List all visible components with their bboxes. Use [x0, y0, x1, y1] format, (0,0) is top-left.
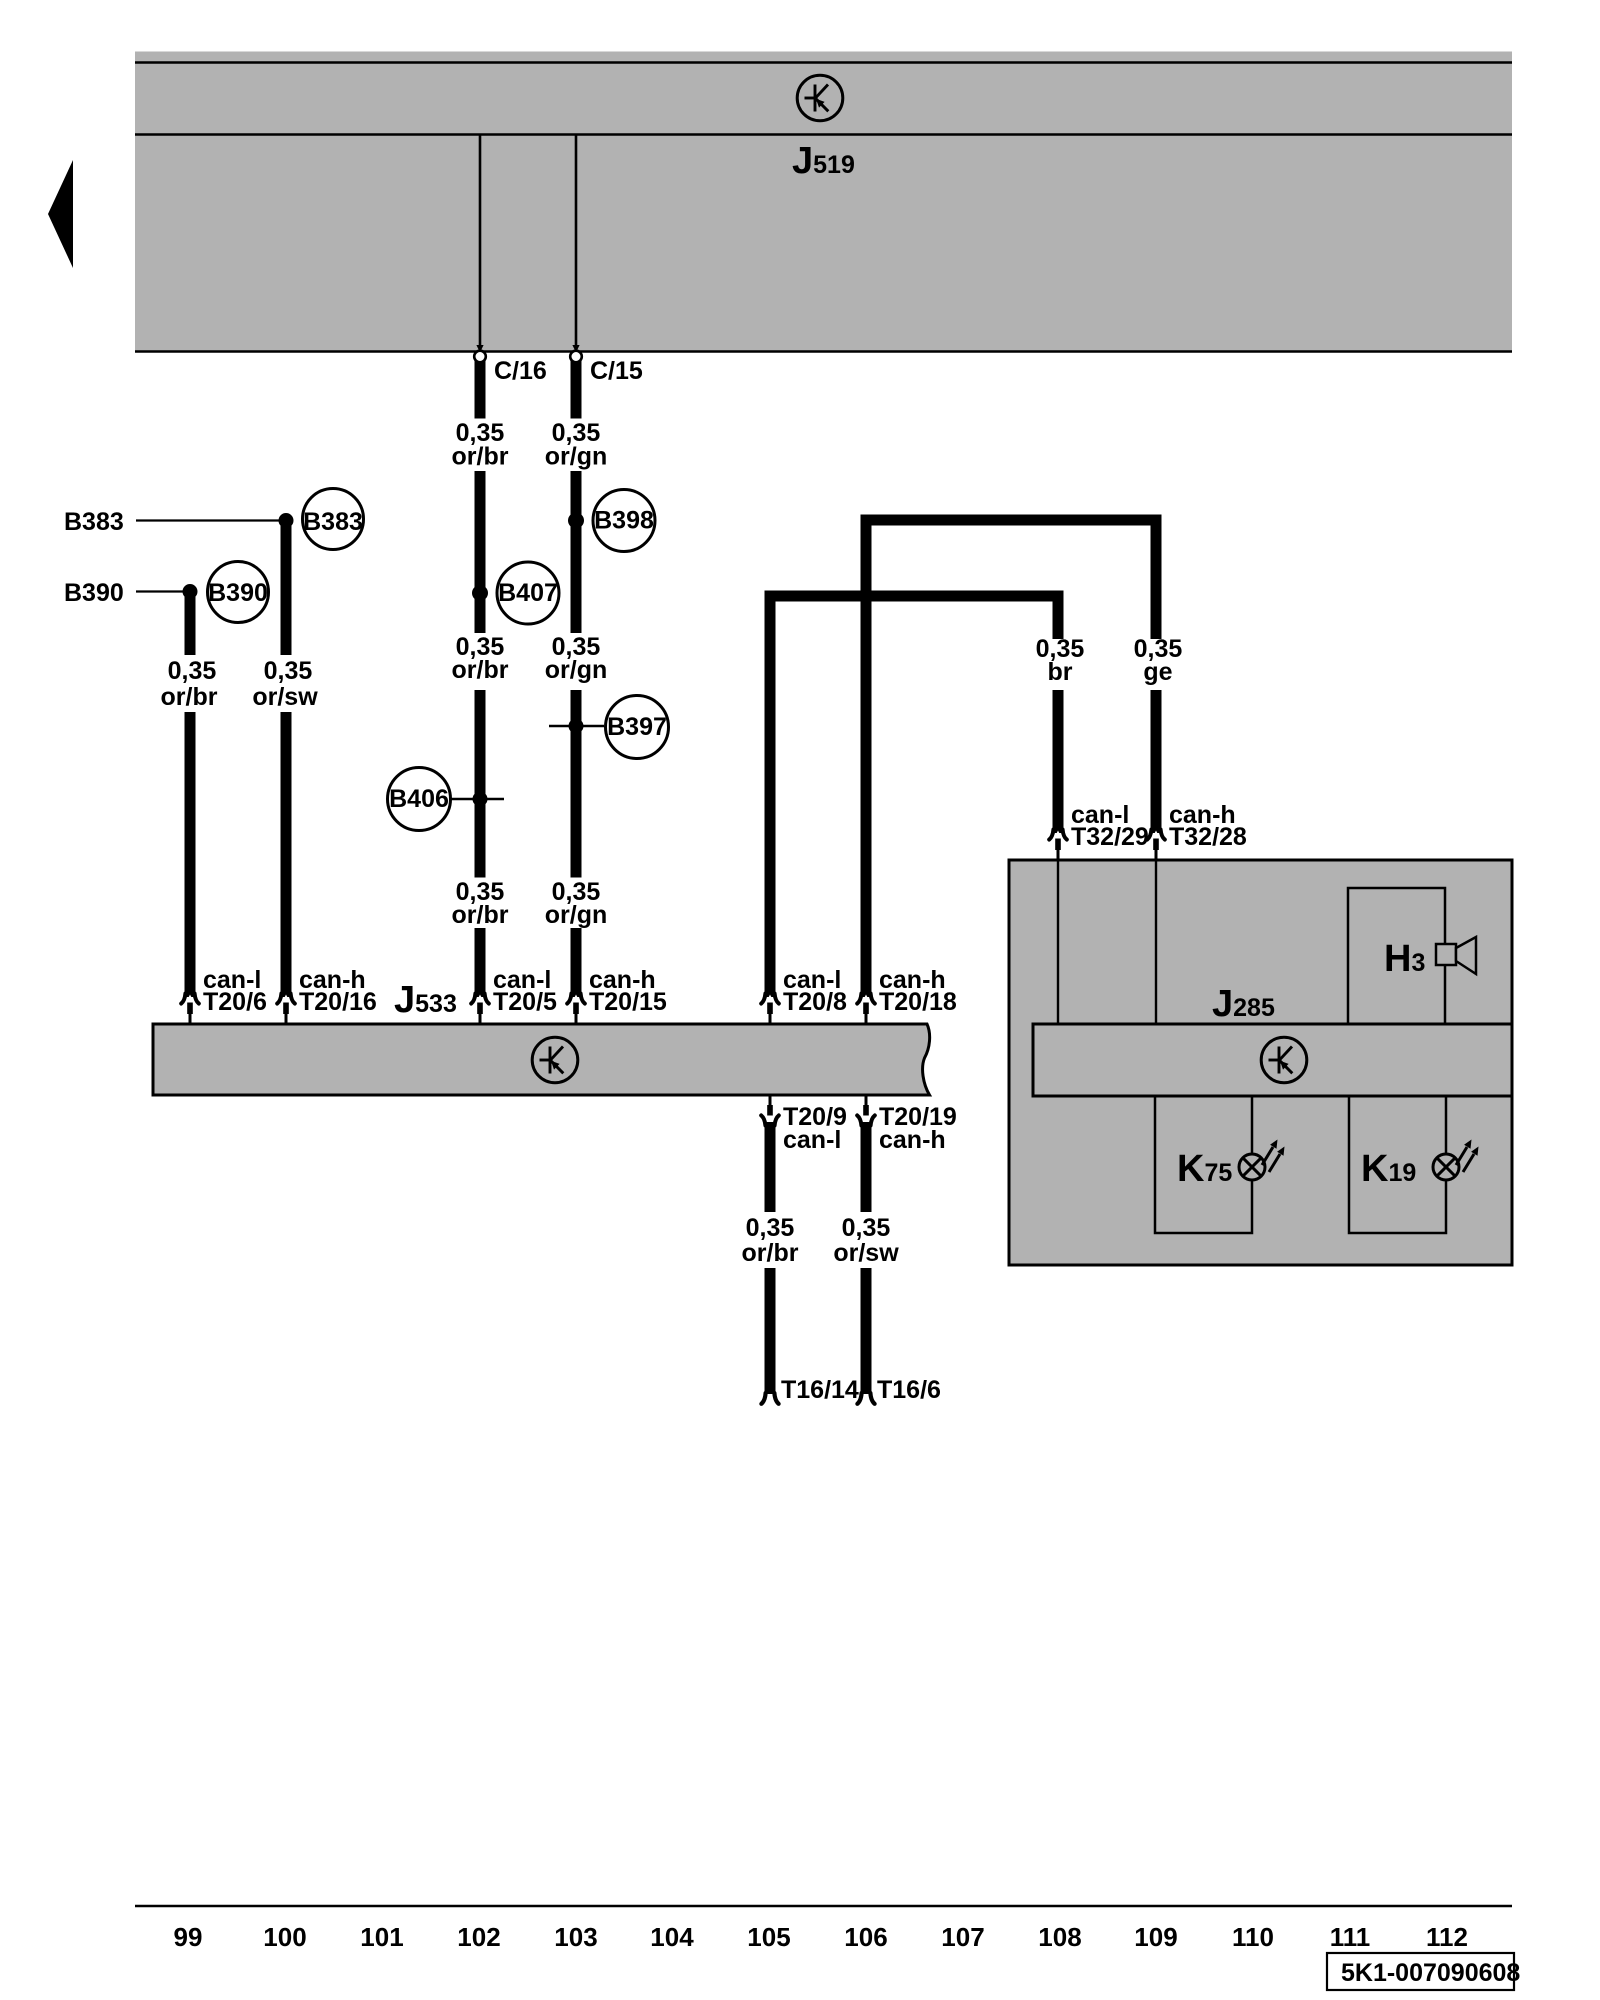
terminal T20/15: [567, 994, 585, 1025]
svg-text:102: 102: [457, 1922, 500, 1952]
can-h horizontal wire (106 to 109): [861, 515, 1162, 526]
wire end T16/14: [761, 1393, 778, 1404]
wire 100 segment 2: [281, 712, 292, 997]
svg-text:or/gn: or/gn: [545, 656, 608, 684]
svg-text:0,35: 0,35: [264, 657, 313, 685]
svg-text:or/sw: or/sw: [252, 683, 318, 711]
splice circle B398: [593, 490, 655, 552]
internal bus bar of J285: [1033, 1024, 1512, 1096]
svg-text:0,35: 0,35: [746, 1214, 795, 1242]
svg-text:B397: B397: [607, 713, 667, 741]
internal wire to C/15: [575, 135, 578, 346]
control unit J285 box (instrument cluster): [1009, 860, 1512, 1265]
connector ring C/15: [570, 351, 582, 363]
ECU J519 box (onboard supply control unit): [135, 52, 1512, 353]
lamp K75: [1239, 1140, 1285, 1181]
svg-text:or/br: or/br: [452, 656, 509, 684]
svg-text:T20/5: T20/5: [493, 988, 557, 1016]
wire 103 segment 4: [571, 928, 582, 997]
wire 109 ge segment 1: [1151, 515, 1162, 639]
internal wire to C/16: [479, 135, 482, 346]
svg-text:0,35: 0,35: [168, 657, 217, 685]
wire 105 can-l vertical: [765, 591, 776, 997]
wire 106 can-h vertical: [861, 515, 872, 997]
K symbol in J519: [797, 75, 843, 121]
splice dot B390: [183, 584, 198, 599]
speaker H3 symbol: [1436, 944, 1456, 965]
svg-text:C/15: C/15: [590, 357, 643, 385]
svg-text:103: 103: [554, 1922, 597, 1952]
svg-text:C/16: C/16: [494, 357, 547, 385]
wire end T16/6: [857, 1393, 874, 1404]
terminal T20/8: [761, 994, 779, 1025]
terminal T20/19: [857, 1095, 875, 1126]
svg-text:107: 107: [941, 1922, 984, 1952]
wire 103 or/gn segment 1: [571, 361, 582, 419]
svg-text:B390: B390: [64, 579, 124, 607]
terminal T20/5: [471, 994, 489, 1025]
wire 105 lower segment 1: [765, 1122, 776, 1212]
wire 102 segment 4: [475, 928, 486, 997]
svg-text:or/sw: or/sw: [833, 1239, 899, 1267]
svg-text:can-l: can-l: [783, 1126, 841, 1154]
wire 103 segment 2: [571, 471, 582, 633]
svg-text:106: 106: [844, 1922, 887, 1952]
connector ring C/16: [474, 351, 486, 363]
svg-text:br: br: [1048, 658, 1073, 686]
gateway J533 bus bar: [153, 1024, 930, 1095]
svg-text:T20/16: T20/16: [299, 988, 377, 1016]
splice circle B397: [606, 696, 669, 759]
K75 sub-box: [1155, 1096, 1252, 1233]
svg-text:B390: B390: [208, 579, 268, 607]
leader line B383: [136, 519, 286, 521]
terminal T20/6: [181, 994, 199, 1025]
wire 100 or/sw segment 1: [281, 520, 292, 655]
svg-text:T20/8: T20/8: [783, 988, 847, 1016]
wire 99 segment 2: [185, 712, 196, 997]
svg-text:99: 99: [174, 1922, 203, 1952]
wire 103 segment 3: [571, 690, 582, 878]
splice circle B383: [303, 489, 364, 550]
svg-text:110: 110: [1232, 1922, 1274, 1952]
svg-text:B383: B383: [303, 508, 363, 536]
svg-text:109: 109: [1134, 1922, 1177, 1952]
svg-text:B406: B406: [389, 785, 449, 813]
svg-text:T20/15: T20/15: [589, 988, 667, 1016]
terminal T20/16: [277, 994, 295, 1025]
svg-text:5K1-007090608: 5K1-007090608: [1341, 1959, 1520, 1987]
svg-text:105: 105: [747, 1922, 790, 1952]
svg-text:101: 101: [360, 1922, 403, 1952]
svg-text:or/br: or/br: [452, 901, 509, 929]
svg-text:B398: B398: [594, 507, 654, 535]
terminal T20/9: [761, 1095, 779, 1126]
splice dot B398: [568, 513, 584, 529]
svg-text:108: 108: [1038, 1922, 1081, 1952]
wire 99 or/br segment 1: [185, 591, 196, 655]
svg-text:or/br: or/br: [161, 683, 218, 711]
svg-text:B407: B407: [498, 579, 558, 607]
splice circle B406: [388, 768, 451, 831]
svg-text:111: 111: [1330, 1922, 1371, 1952]
svg-text:or/gn: or/gn: [545, 443, 608, 471]
svg-text:104: 104: [650, 1922, 694, 1952]
svg-text:or/br: or/br: [742, 1239, 799, 1267]
terminal T32/29: [1049, 830, 1067, 861]
svg-text:ge: ge: [1143, 658, 1172, 686]
wire 108 br segment 1: [1053, 591, 1064, 639]
svg-text:T20/18: T20/18: [879, 988, 957, 1016]
internal wire from T32/28: [1155, 860, 1157, 1024]
svg-text:112: 112: [1426, 1922, 1468, 1952]
svg-text:or/br: or/br: [452, 443, 509, 471]
K symbol in J285: [1261, 1037, 1307, 1083]
splice B397 crossing line: [549, 725, 604, 728]
svg-text:0,35: 0,35: [842, 1214, 891, 1242]
wire 102 segment 2: [475, 471, 486, 633]
wire 109 ge segment 2: [1151, 690, 1162, 833]
splice circle B390: [208, 562, 269, 623]
wire 102 segment 3: [475, 690, 486, 878]
terminal T32/28: [1147, 830, 1165, 861]
svg-text:100: 100: [263, 1922, 306, 1952]
page-continuation arrow: [48, 160, 73, 268]
terminal T20/18: [857, 994, 875, 1025]
svg-text:T32/28: T32/28: [1169, 823, 1247, 851]
splice dot B383: [279, 513, 294, 528]
can-l horizontal wire (105 to 108): [765, 591, 1064, 602]
splice B406 crossing line: [450, 798, 504, 801]
splice circle B407: [497, 562, 559, 624]
diagram code box: [1327, 1953, 1514, 1990]
H3 sub-box: [1348, 888, 1445, 1024]
svg-text:T16/6: T16/6: [877, 1376, 941, 1404]
svg-text:or/gn: or/gn: [545, 901, 608, 929]
K symbol in J533: [532, 1037, 578, 1083]
bottom current-track scale line: [135, 1905, 1512, 1908]
wire 102 or/br segment 1: [475, 361, 486, 419]
svg-text:can-h: can-h: [879, 1126, 946, 1154]
lamp K19: [1433, 1140, 1479, 1181]
splice dot B407: [472, 585, 488, 601]
leader line B390: [136, 590, 190, 592]
wire 105 lower segment 2: [765, 1268, 776, 1394]
svg-text:J533: J533: [394, 979, 457, 1021]
K19 sub-box: [1349, 1096, 1446, 1233]
wire 106 lower segment 1: [861, 1122, 872, 1212]
svg-text:T16/14: T16/14: [781, 1376, 859, 1404]
svg-text:B383: B383: [64, 508, 124, 536]
svg-text:T20/6: T20/6: [203, 988, 267, 1016]
wire 106 lower segment 2: [861, 1268, 872, 1394]
internal wire from T32/29: [1057, 860, 1059, 1024]
wire 108 br segment 2: [1053, 690, 1064, 833]
svg-text:T32/29: T32/29: [1071, 823, 1149, 851]
